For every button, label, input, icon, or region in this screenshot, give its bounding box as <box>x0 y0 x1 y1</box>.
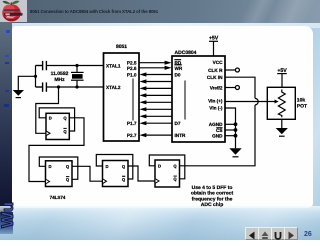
pin Q of U3B <box>66 164 70 169</box>
ground G1 <box>13 90 24 98</box>
WU vertical text <box>0 202 14 230</box>
svg-text:D: D <box>158 164 161 169</box>
svg-text:+5V: +5V <box>209 36 219 42</box>
ADC0804 chip U2 box <box>172 56 225 142</box>
arrow D7 to P1.7 <box>139 121 146 125</box>
potentiometer R1 box <box>267 87 295 119</box>
wire XTAL1 net <box>47 65 104 67</box>
wiper arrow of R1 <box>267 100 278 104</box>
pin Vin- <box>209 106 223 111</box>
pin INTR <box>175 133 187 138</box>
pin D of U3B <box>49 164 52 169</box>
wire D7 <box>144 122 172 124</box>
clock input triangle U4A <box>103 179 107 184</box>
wire U4B Q to ADC CLK IN <box>180 77 256 166</box>
wire pot to ground <box>281 119 283 128</box>
arrow into RD <box>165 61 172 65</box>
label 8051 <box>116 44 127 50</box>
junction AGND <box>234 122 238 126</box>
svg-text:D: D <box>106 164 109 169</box>
junction XTAL2 tap <box>57 85 60 88</box>
arrow D0 to P1.0 <box>139 72 146 76</box>
pin D of U4B <box>158 164 161 169</box>
pin Q of U4A <box>122 164 126 169</box>
wire INTR <box>144 134 172 136</box>
wire U3B Q to U4A clock <box>72 166 103 181</box>
svg-text:Q: Q <box>66 164 70 169</box>
label 74LS74 <box>50 195 66 200</box>
svg-text:INTR: INTR <box>175 133 187 138</box>
svg-text:P2.7: P2.7 <box>127 133 137 138</box>
svg-text:Q: Q <box>66 177 70 182</box>
wire AGND stub <box>225 123 236 125</box>
svg-text:74LS74: 74LS74 <box>50 195 66 200</box>
note text <box>191 185 234 208</box>
pin Vref/2 <box>210 85 223 90</box>
pin Q of U4B <box>173 164 177 169</box>
value 11.0592 MHz <box>51 71 69 83</box>
pin CLK IN <box>207 75 223 80</box>
capacitor C2 <box>36 82 47 91</box>
svg-text:11.0592: 11.0592 <box>51 71 69 77</box>
svg-text:AGND: AGND <box>209 122 223 127</box>
net +5V ADC <box>209 36 219 42</box>
clock input triangle U3A <box>46 131 50 136</box>
junction cap-gnd <box>34 75 37 78</box>
junction CS <box>234 128 238 132</box>
svg-text:Q: Q <box>63 129 67 134</box>
pin P2.7 <box>127 133 137 138</box>
svg-text:D: D <box>49 116 52 121</box>
title text <box>30 9 158 14</box>
wire GND stub <box>225 135 236 137</box>
svg-text:CLK R: CLK R <box>208 68 223 73</box>
pin P2.6 <box>127 66 137 71</box>
wire cap common <box>35 66 37 88</box>
pin Qbar of U3A <box>63 128 67 134</box>
svg-text:+5V: +5V <box>277 68 287 74</box>
arrow D1 <box>139 79 146 83</box>
pin XTAL1 <box>106 64 121 69</box>
P1.0-P1.7 range line in 8051 <box>132 79 134 121</box>
wire Vref/2 stub <box>225 87 235 89</box>
svg-text:P2.6: P2.6 <box>127 66 137 71</box>
junction X1 bottom <box>75 85 78 88</box>
ground G3 <box>276 128 288 137</box>
DFF U3B box <box>46 161 73 187</box>
pin P1.7 <box>127 121 137 126</box>
pin WR <box>175 64 183 70</box>
pin CLK R <box>208 68 223 73</box>
wire D3 <box>144 94 172 96</box>
svg-text:D7: D7 <box>175 121 181 126</box>
pin P2.5 <box>127 61 137 66</box>
wire CS stub <box>225 129 236 131</box>
net +5V pot <box>277 68 287 74</box>
arrow D5 <box>139 107 146 111</box>
svg-text:GND: GND <box>212 134 223 139</box>
svg-text:POT: POT <box>297 104 307 110</box>
pin Qbar of U4A <box>122 176 126 182</box>
wire U4B feedback Qbar to D <box>149 155 185 179</box>
svg-text:WR: WR <box>175 66 183 71</box>
svg-text:Q: Q <box>122 164 126 169</box>
crystal X1 <box>71 66 84 88</box>
label ADC0804 <box>175 50 197 56</box>
wire hop over Vin+ <box>255 98 258 105</box>
arrow INTR to P2.7 <box>139 133 146 137</box>
arrow into WR <box>165 66 172 70</box>
DFF U4B box <box>155 160 180 187</box>
wire Vin- to ground bus <box>225 108 236 148</box>
arrow D4 <box>139 100 146 104</box>
svg-text:P1.0: P1.0 <box>127 72 137 77</box>
svg-text:Q: Q <box>122 177 126 182</box>
wire Vin+ to pot <box>225 101 267 103</box>
nav buttons <box>245 227 259 240</box>
DFF U3A box <box>46 113 69 139</box>
value 10k POT <box>297 97 307 109</box>
junction GND <box>234 134 238 138</box>
svg-text:Q: Q <box>63 116 67 121</box>
wire D6 <box>144 115 172 117</box>
pin GND <box>212 134 223 139</box>
+5V supply ADC <box>209 41 218 56</box>
wire D0 <box>144 74 172 76</box>
pin P1.0 <box>127 72 137 77</box>
svg-text:D: D <box>49 164 52 169</box>
wire D2 <box>144 87 172 89</box>
svg-text:CLK IN: CLK IN <box>207 75 223 80</box>
clock input triangle U4B <box>155 179 159 184</box>
svg-text:10k: 10k <box>297 97 306 103</box>
capacitor C1 <box>36 61 47 70</box>
ground G2 <box>229 148 241 157</box>
svg-text:Vin (+): Vin (+) <box>208 99 223 104</box>
wire D4 <box>144 101 172 103</box>
wire U4A feedback Qbar to D <box>96 155 133 180</box>
wire U3A feedback Qbar to D <box>39 108 74 131</box>
junction X1 top <box>75 64 78 67</box>
svg-text:P1.7: P1.7 <box>127 121 137 126</box>
DFF U4A box <box>103 161 129 187</box>
terminal Vref/2 <box>235 86 239 90</box>
pin Q of U3A <box>63 116 67 121</box>
terminal CLK R <box>235 68 239 72</box>
pin XTAL2 <box>106 85 121 90</box>
svg-text:8051: 8051 <box>116 44 127 50</box>
pin RD <box>175 59 182 65</box>
wire U4A Q to U4B clock <box>128 166 155 181</box>
svg-text:Q: Q <box>173 177 177 182</box>
wire CLK R stub <box>225 69 235 71</box>
wire D1 <box>144 81 172 83</box>
sidebar tiny marks <box>6 30 10 33</box>
svg-text:Vin (-): Vin (-) <box>209 106 223 111</box>
D0-D7 range line in ADC <box>184 81 186 120</box>
svg-text:ADC0804: ADC0804 <box>175 50 197 56</box>
resistor element of R1 <box>278 90 285 118</box>
pin D0 <box>175 72 181 77</box>
pin CS <box>216 127 223 132</box>
pin Qbar of U3B <box>66 176 70 182</box>
pin Vin+ <box>208 99 223 104</box>
svg-text:MHz: MHz <box>54 77 65 83</box>
+5V supply pot <box>277 74 287 88</box>
clock input triangle U3B <box>46 179 50 184</box>
wire to ground <box>18 76 35 90</box>
svg-text:ADC chip: ADC chip <box>201 202 224 208</box>
svg-text:VCC: VCC <box>213 60 224 65</box>
8051 chip U1 box <box>104 53 140 141</box>
wire XTAL2 to U3A clock <box>36 87 59 133</box>
svg-text:D0: D0 <box>175 72 181 77</box>
pin Qbar of U4B <box>173 176 177 182</box>
svg-text:CS: CS <box>216 128 223 133</box>
WU corner patch <box>0 212 13 234</box>
wire XTAL2 net <box>47 86 104 88</box>
logo <box>0 0 27 22</box>
wire U3B feedback Qbar to D <box>39 157 78 179</box>
wire U3A Q to U3B clock <box>29 118 84 182</box>
wire RD from P2.5 <box>139 62 167 64</box>
pin VCC <box>213 60 224 65</box>
arrow D2 <box>139 86 146 90</box>
svg-text:Q: Q <box>173 164 177 169</box>
pin D7 <box>175 121 181 126</box>
wire WR from P2.6 <box>139 67 167 69</box>
pin AGND <box>209 122 223 127</box>
svg-text:Vref/2: Vref/2 <box>210 85 223 90</box>
svg-text:XTAL1: XTAL1 <box>106 64 121 69</box>
arrow D6 <box>139 114 146 118</box>
arrow D3 <box>139 93 146 97</box>
pin D of U4A <box>106 164 109 169</box>
pin D of U3A <box>49 116 52 121</box>
wire D5 <box>144 108 172 110</box>
svg-text:XTAL2: XTAL2 <box>106 85 121 90</box>
